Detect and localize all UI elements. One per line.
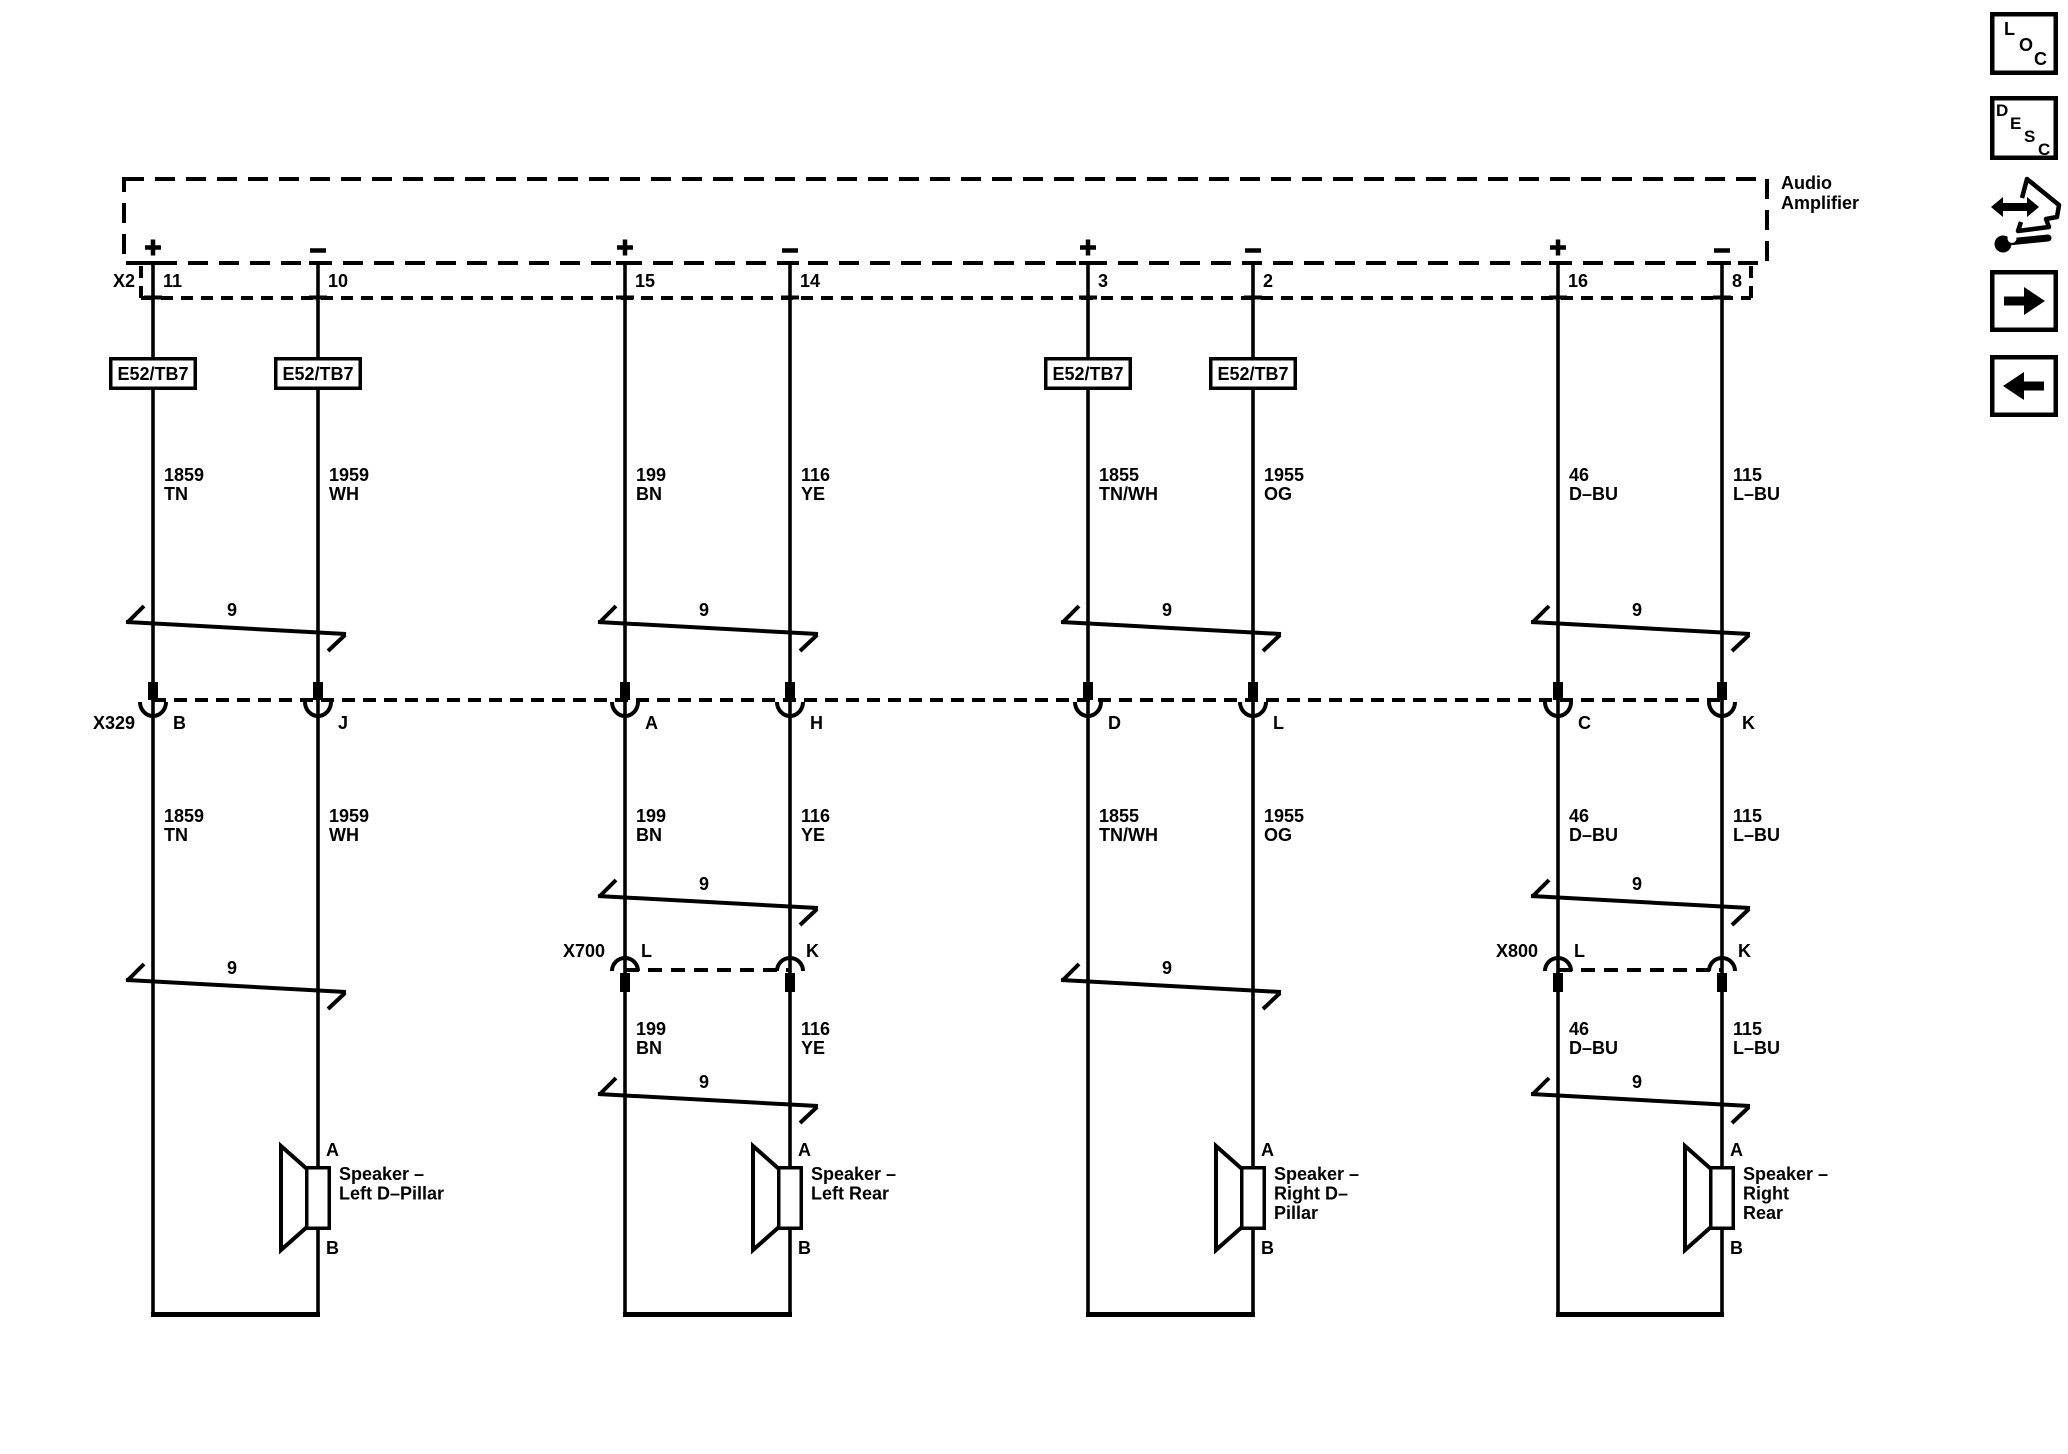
svg-text:TN: TN	[164, 825, 188, 845]
svg-text:D–BU: D–BU	[1569, 1038, 1618, 1058]
speaker cone	[1685, 1146, 1711, 1250]
wire label 46 D–BU (lower run)	[1569, 1019, 1618, 1058]
svg-text:D–BU: D–BU	[1569, 825, 1618, 845]
svg-text:Right: Right	[1743, 1184, 1789, 1204]
polarity sign - for X2 pin 10	[310, 248, 326, 253]
legend icon: next-page right arrow box	[1992, 272, 2056, 330]
svg-text:1855: 1855	[1099, 806, 1139, 826]
svg-text:116: 116	[801, 465, 830, 485]
svg-text:Left Rear: Left Rear	[811, 1184, 889, 1204]
svg-text:OG: OG	[1264, 825, 1292, 845]
svg-text:Pillar: Pillar	[1274, 1203, 1318, 1223]
svg-text:14: 14	[800, 271, 820, 291]
svg-text:X329: X329	[93, 713, 135, 733]
twisted-leads symbol lower pair 4 (loom 9)	[1531, 1078, 1750, 1123]
svg-text:TN/WH: TN/WH	[1099, 825, 1158, 845]
X2 terminal tick marks on wire W3	[616, 263, 634, 298]
svg-text:10: 10	[328, 271, 348, 291]
polarity sign - for X2 pin 2	[1245, 248, 1261, 253]
wire label 1959 WH (middle run)	[329, 806, 369, 845]
svg-text:3: 3	[1098, 271, 1108, 291]
wire label 46 D–BU (middle run)	[1569, 806, 1618, 845]
svg-text:K: K	[1738, 941, 1751, 961]
speaker: Right Rear	[1685, 1140, 1828, 1258]
twisted-leads symbol mid pair 2 (loom 9)	[598, 880, 818, 925]
svg-text:11: 11	[163, 271, 182, 291]
svg-text:YE: YE	[801, 1038, 825, 1058]
svg-text:Rear: Rear	[1743, 1203, 1783, 1223]
svg-text:C: C	[2034, 49, 2047, 69]
svg-text:9: 9	[1162, 958, 1172, 978]
svg-text:9: 9	[1632, 1072, 1642, 1092]
wire label 199 BN (upper run)	[636, 465, 666, 504]
X2 terminal tick marks on wire W5	[1079, 263, 1097, 298]
svg-text:A: A	[798, 1140, 811, 1160]
svg-text:1859: 1859	[164, 806, 204, 826]
svg-text:Right D–: Right D–	[1274, 1184, 1348, 1204]
X2 terminal tick marks on wire W7	[1549, 263, 1567, 298]
svg-text:C: C	[1578, 713, 1591, 733]
twisted-leads symbol mid pair 4 (loom 9)	[1531, 880, 1750, 925]
svg-text:X800: X800	[1496, 941, 1538, 961]
wire label 1859 TN (upper run)	[164, 465, 204, 504]
wire label 1855 TN/WH (middle run)	[1099, 806, 1158, 845]
svg-text:115: 115	[1733, 806, 1762, 826]
svg-text:L: L	[2004, 19, 2015, 39]
component box E52/TB7 on wire x=1088	[1046, 359, 1131, 389]
svg-text:B: B	[1730, 1238, 1743, 1258]
svg-text:BN: BN	[636, 1038, 662, 1058]
wire label 1959 WH (upper run)	[329, 465, 369, 504]
svg-text:K: K	[1742, 713, 1755, 733]
svg-text:H: H	[810, 713, 823, 733]
svg-text:L: L	[641, 941, 652, 961]
wire W7 circuit 46 D-BU vertical run	[1556, 263, 1560, 1317]
svg-text:A: A	[1261, 1140, 1274, 1160]
wire W8 circuit 115 L-BU vertical run	[1720, 263, 1724, 1317]
svg-text:B: B	[1261, 1238, 1274, 1258]
svg-text:A: A	[645, 713, 658, 733]
speaker: Right D-Pillar	[1216, 1140, 1359, 1258]
wire label 1955 OG (middle run)	[1264, 806, 1304, 845]
connector X700 dotted junction line	[625, 968, 790, 972]
X329 terminal (pin and socket) on wire W2	[313, 682, 323, 700]
svg-text:199: 199	[636, 1019, 666, 1039]
speaker driver body rect	[779, 1168, 802, 1229]
twisted-leads symbol upper pair 1 (loom 9)	[126, 606, 346, 651]
svg-text:D: D	[1108, 713, 1121, 733]
wire: bottom return segment pair 4	[1556, 1312, 1724, 1317]
svg-text:1959: 1959	[329, 806, 369, 826]
wire label 116 YE (lower run)	[801, 1019, 830, 1058]
svg-text:X2: X2	[113, 271, 135, 291]
X800 terminal (socket above, pin below) on wire x=1558	[1545, 958, 1571, 971]
svg-text:L–BU: L–BU	[1733, 484, 1780, 504]
svg-text:D–BU: D–BU	[1569, 484, 1618, 504]
wire: bottom return segment pair 1	[151, 1312, 320, 1317]
svg-text:C: C	[2038, 140, 2050, 159]
svg-text:L: L	[1273, 713, 1284, 733]
wire label 46 D–BU (upper run)	[1569, 465, 1618, 504]
legend icon: DESC box	[1992, 98, 2056, 159]
wire W5 circuit 1855 TN/WH vertical run	[1086, 263, 1090, 1317]
polarity sign + for X2 pin 11	[145, 240, 161, 256]
svg-text:D: D	[1996, 101, 2008, 120]
component box E52/TB7 on wire x=153	[111, 359, 196, 389]
svg-text:B: B	[173, 713, 186, 733]
X2 terminal tick marks on wire W8	[1713, 263, 1731, 298]
speaker driver body rect	[1711, 1168, 1734, 1229]
wire label 115 L–BU (upper run)	[1733, 465, 1780, 504]
svg-text:B: B	[326, 1238, 339, 1258]
svg-text:1959: 1959	[329, 465, 369, 485]
svg-text:9: 9	[1632, 600, 1642, 620]
svg-text:OG: OG	[1264, 484, 1292, 504]
svg-text:199: 199	[636, 465, 666, 485]
wire label 115 L–BU (lower run)	[1733, 1019, 1780, 1058]
svg-text:9: 9	[227, 958, 237, 978]
wire label 116 YE (upper run)	[801, 465, 830, 504]
X2 terminal tick marks on wire W1	[144, 263, 162, 298]
polarity sign - for X2 pin 14	[782, 248, 798, 253]
X329 terminal (pin and socket) on wire W8	[1717, 682, 1727, 700]
wire W6 circuit 1955 OG vertical run	[1251, 263, 1255, 1317]
svg-text:TN/WH: TN/WH	[1099, 484, 1158, 504]
svg-text:TN: TN	[164, 484, 188, 504]
twisted-leads symbol lower pair 2 (loom 9)	[598, 1078, 818, 1123]
svg-text:E: E	[2010, 114, 2021, 133]
polarity sign + for X2 pin 16	[1550, 240, 1566, 256]
svg-text:9: 9	[227, 600, 237, 620]
svg-text:L: L	[1574, 941, 1585, 961]
X329 terminal (pin and socket) on wire W4	[785, 682, 795, 700]
svg-text:E52/TB7: E52/TB7	[1217, 364, 1288, 384]
wire W1 circuit 1859 TN vertical run	[151, 263, 155, 1317]
X700 terminal (socket above, pin below) on wire x=625	[612, 958, 638, 971]
svg-text:46: 46	[1569, 1019, 1589, 1039]
speaker: Left D-Pillar	[281, 1140, 444, 1258]
svg-text:1955: 1955	[1264, 465, 1304, 485]
svg-text:S: S	[2024, 127, 2035, 146]
svg-text:9: 9	[699, 874, 709, 894]
legend icon: connector repair tool (arrows + wrench)	[1991, 179, 2059, 253]
speaker cone	[753, 1146, 779, 1250]
wire label 1955 OG (upper run)	[1264, 465, 1304, 504]
X329 terminal (pin and socket) on wire W6	[1248, 682, 1258, 700]
connector X2 dotted outline (bottom and side edges)	[141, 266, 1751, 298]
svg-text:8: 8	[1732, 271, 1742, 291]
svg-text:E52/TB7: E52/TB7	[1052, 364, 1123, 384]
wire label 115 L–BU (middle run)	[1733, 806, 1780, 845]
X329 terminal (pin and socket) on wire W7	[1553, 682, 1563, 700]
wire W2 circuit 1959 WH vertical run	[316, 263, 320, 1317]
svg-text:Speaker –: Speaker –	[1274, 1164, 1359, 1184]
speaker driver body rect	[307, 1168, 330, 1229]
svg-text:Audio: Audio	[1781, 173, 1832, 193]
legend icon: LOC box	[1992, 14, 2056, 73]
polarity sign - for X2 pin 8	[1714, 248, 1730, 253]
svg-text:E52/TB7: E52/TB7	[117, 364, 188, 384]
twisted-leads symbol lower pair 1 (loom 9)	[126, 964, 346, 1009]
twisted-leads symbol upper pair 3 (loom 9)	[1061, 606, 1281, 651]
svg-text:9: 9	[699, 600, 709, 620]
svg-text:115: 115	[1733, 1019, 1762, 1039]
X2 terminal tick marks on wire W2	[309, 263, 327, 298]
speaker: Left Rear	[753, 1140, 896, 1258]
svg-text:WH: WH	[329, 484, 359, 504]
svg-text:1955: 1955	[1264, 806, 1304, 826]
svg-text:O: O	[2019, 35, 2033, 55]
X329 terminal (pin and socket) on wire W1	[148, 682, 158, 700]
svg-text:9: 9	[1632, 874, 1642, 894]
svg-text:YE: YE	[801, 825, 825, 845]
svg-text:L–BU: L–BU	[1733, 825, 1780, 845]
twisted-leads symbol upper pair 4 (loom 9)	[1531, 606, 1750, 651]
svg-text:46: 46	[1569, 465, 1589, 485]
legend icon: previous-page left arrow box	[1992, 357, 2056, 415]
svg-text:1855: 1855	[1099, 465, 1139, 485]
X329 terminal (pin and socket) on wire W3	[620, 682, 630, 700]
svg-text:A: A	[326, 1140, 339, 1160]
wire label 1855 TN/WH (upper run)	[1099, 465, 1158, 504]
svg-text:WH: WH	[329, 825, 359, 845]
audio amplifier U1 dashed outline box	[124, 179, 1767, 263]
polarity sign + for X2 pin 15	[617, 240, 633, 256]
component box E52/TB7 on wire x=318	[276, 359, 361, 389]
svg-text:Left D–Pillar: Left D–Pillar	[339, 1184, 444, 1204]
wire W4 circuit 116 YE vertical run	[788, 263, 792, 1317]
svg-text:9: 9	[1162, 600, 1172, 620]
connector X800 dotted junction line	[1558, 968, 1722, 972]
svg-text:Speaker –: Speaker –	[339, 1164, 424, 1184]
wire: bottom return segment pair 3	[1086, 1312, 1255, 1317]
svg-text:2: 2	[1263, 271, 1273, 291]
svg-text:BN: BN	[636, 825, 662, 845]
svg-text:Speaker –: Speaker –	[1743, 1164, 1828, 1184]
speaker cone	[281, 1146, 307, 1250]
svg-text:B: B	[798, 1238, 811, 1258]
svg-text:K: K	[806, 941, 819, 961]
audio amplifier name label	[1781, 173, 1859, 213]
speaker driver body rect	[1242, 1168, 1265, 1229]
wire W3 circuit 199 BN vertical run	[623, 263, 627, 1317]
wire label 199 BN (middle run)	[636, 806, 666, 845]
svg-text:E52/TB7: E52/TB7	[282, 364, 353, 384]
svg-text:115: 115	[1733, 465, 1762, 485]
svg-text:YE: YE	[801, 484, 825, 504]
X800 terminal (socket above, pin below) on wire x=1722	[1709, 958, 1735, 971]
svg-text:16: 16	[1568, 271, 1588, 291]
wire label 116 YE (middle run)	[801, 806, 830, 845]
svg-text:Amplifier: Amplifier	[1781, 193, 1859, 213]
connector X329 dotted junction line	[153, 698, 1722, 702]
wire: bottom return segment pair 2	[623, 1312, 792, 1317]
svg-text:116: 116	[801, 806, 830, 826]
svg-text:J: J	[338, 713, 348, 733]
svg-text:A: A	[1730, 1140, 1743, 1160]
X2 terminal tick marks on wire W6	[1244, 263, 1262, 298]
svg-text:Speaker –: Speaker –	[811, 1164, 896, 1184]
speaker cone	[1216, 1146, 1242, 1250]
X329 terminal (pin and socket) on wire W5	[1083, 682, 1093, 700]
twisted-leads symbol upper pair 2 (loom 9)	[598, 606, 818, 651]
svg-text:199: 199	[636, 806, 666, 826]
svg-text:9: 9	[699, 1072, 709, 1092]
component box E52/TB7 on wire x=1253	[1211, 359, 1296, 389]
polarity sign + for X2 pin 3	[1080, 240, 1096, 256]
svg-text:15: 15	[635, 271, 655, 291]
svg-text:1859: 1859	[164, 465, 204, 485]
X700 terminal (socket above, pin below) on wire x=790	[777, 958, 803, 971]
svg-text:46: 46	[1569, 806, 1589, 826]
twisted-leads symbol lower pair 3 (loom 9)	[1061, 964, 1281, 1009]
svg-text:X700: X700	[563, 941, 605, 961]
wire label 1859 TN (middle run)	[164, 806, 204, 845]
X2 terminal tick marks on wire W4	[781, 263, 799, 298]
svg-text:BN: BN	[636, 484, 662, 504]
wire label 199 BN (lower run)	[636, 1019, 666, 1058]
svg-text:L–BU: L–BU	[1733, 1038, 1780, 1058]
svg-text:116: 116	[801, 1019, 830, 1039]
